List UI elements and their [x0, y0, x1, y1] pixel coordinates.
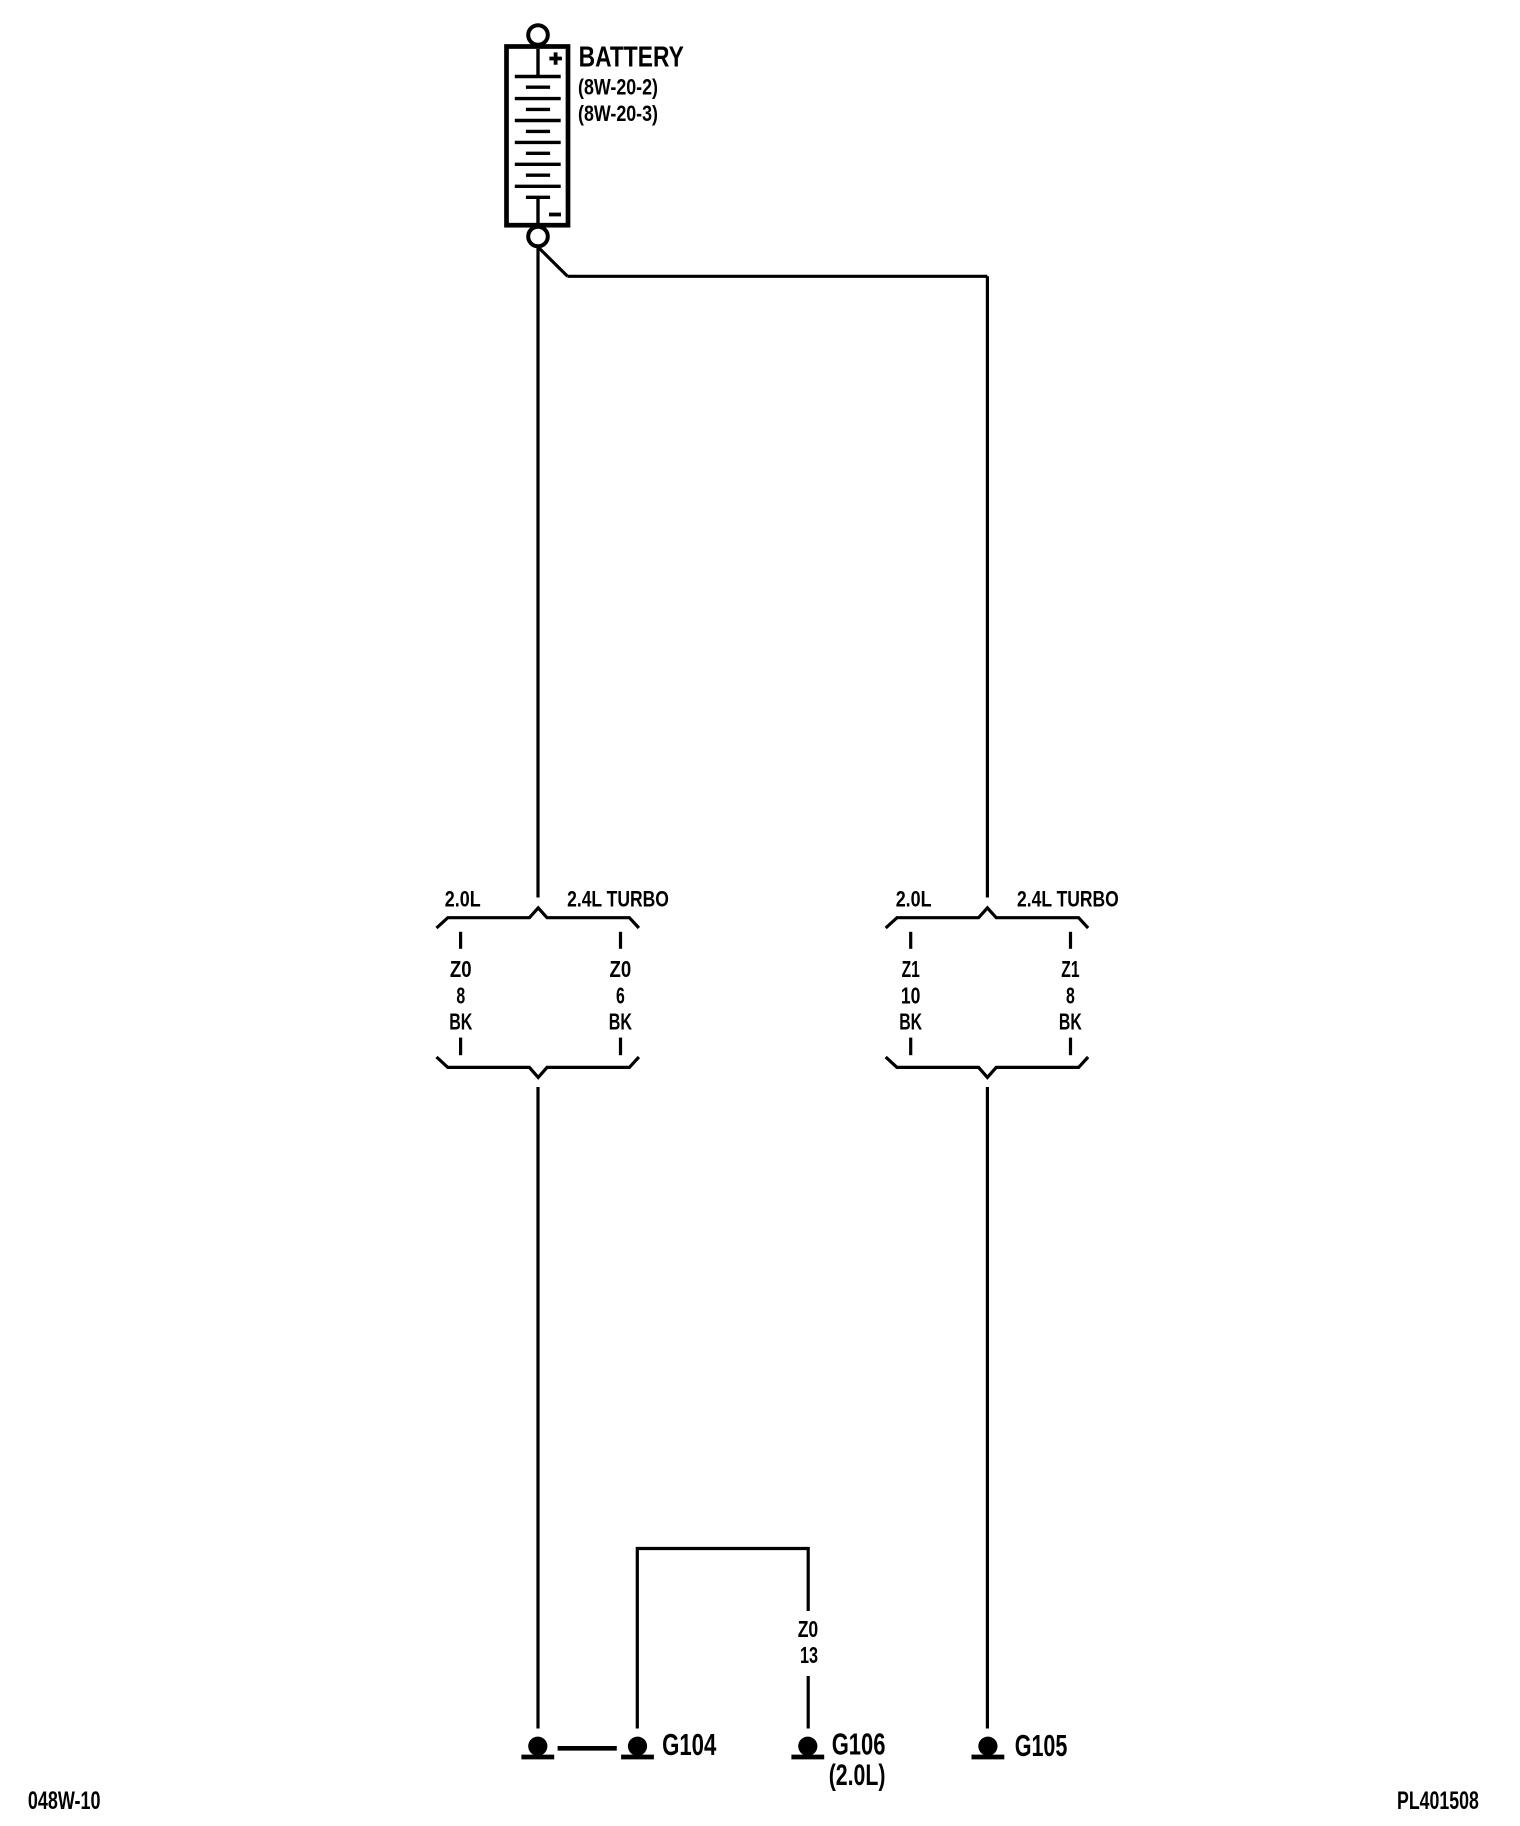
- wire: lower segment to G106: [807, 1676, 810, 1729]
- battery minus sign: [549, 213, 561, 217]
- wire: ground strap between grounds: [558, 1746, 617, 1751]
- ground G105: [972, 1737, 1005, 1757]
- battery B1 top terminal circle: [528, 25, 548, 45]
- battery B1 internal positive lead: [536, 49, 539, 75]
- svg-text:8: 8: [1066, 982, 1075, 1008]
- wire: top horizontal run to right column: [568, 275, 988, 278]
- left splice bottom brace: [437, 1057, 639, 1077]
- right splice top brace: [886, 908, 1088, 928]
- svg-text:2.4L TURBO: 2.4L TURBO: [1017, 887, 1119, 912]
- wire: left splice down to ground: [536, 1087, 539, 1729]
- svg-text:Z0: Z0: [798, 1616, 819, 1642]
- left splice lower dash (2.0L): [459, 1038, 462, 1056]
- wire: battery negative down to left splice: [536, 247, 539, 898]
- left splice lower dash (2.4L): [619, 1038, 622, 1056]
- svg-text:13: 13: [800, 1642, 818, 1668]
- wire: right splice down to G105: [986, 1087, 989, 1729]
- wire: right column vertical down to right splice: [986, 276, 989, 897]
- battery B1 body: [507, 47, 569, 226]
- svg-text:2.0L: 2.0L: [445, 887, 481, 912]
- svg-text:Z0: Z0: [610, 956, 632, 982]
- svg-text:BK: BK: [609, 1008, 632, 1034]
- svg-text:BK: BK: [899, 1008, 922, 1034]
- ground (unlabeled, battery negative): [521, 1737, 554, 1757]
- svg-text:(8W-20-2): (8W-20-2): [578, 75, 658, 100]
- svg-text:BATTERY: BATTERY: [579, 42, 684, 74]
- battery B1 cell plates: [515, 77, 561, 224]
- svg-text:G105: G105: [1015, 1728, 1068, 1763]
- left splice branch dash (2.0L): [459, 932, 462, 949]
- battery plus sign: [549, 52, 562, 64]
- svg-text:PL401508: PL401508: [1397, 1787, 1479, 1815]
- svg-text:(2.0L): (2.0L): [829, 1759, 886, 1792]
- svg-text:2.0L: 2.0L: [896, 887, 932, 912]
- battery B1 bottom terminal circle: [528, 227, 548, 247]
- wire label Z0 6 BK: [609, 956, 632, 1035]
- right splice lower dash (2.4L): [1069, 1038, 1072, 1056]
- wire label Z1 8 BK: [1059, 956, 1082, 1035]
- wire: diagonal from battery negative to right branch: [539, 248, 568, 277]
- right splice bottom brace: [886, 1057, 1088, 1077]
- svg-text:10: 10: [901, 982, 921, 1008]
- right splice branch dash (2.0L): [909, 932, 912, 949]
- svg-text:Z1: Z1: [902, 956, 920, 982]
- wire: G104 riser and jumper to G106 branch: [637, 1549, 808, 1729]
- svg-text:Z1: Z1: [1061, 956, 1079, 982]
- svg-text:BK: BK: [449, 1008, 472, 1034]
- svg-text:048W-10: 048W-10: [28, 1787, 101, 1815]
- ground G106: [791, 1737, 824, 1757]
- right splice lower dash (2.0L): [909, 1038, 912, 1056]
- svg-text:G104: G104: [662, 1727, 717, 1762]
- wire label Z1 10 BK: [899, 956, 922, 1035]
- wire label Z0 8 BK: [449, 956, 472, 1035]
- svg-text:8: 8: [456, 982, 465, 1008]
- svg-text:6: 6: [616, 982, 625, 1008]
- svg-text:(8W-20-3): (8W-20-3): [578, 101, 658, 126]
- left splice branch dash (2.4L): [619, 932, 622, 949]
- right splice branch dash (2.4L): [1069, 932, 1072, 949]
- svg-text:2.4L TURBO: 2.4L TURBO: [567, 887, 669, 912]
- ground G104: [621, 1737, 654, 1757]
- wire label Z0 13: [798, 1616, 819, 1668]
- left splice top brace: [437, 908, 639, 928]
- svg-text:BK: BK: [1059, 1008, 1082, 1034]
- svg-text:G106: G106: [832, 1726, 886, 1761]
- svg-text:Z0: Z0: [450, 956, 472, 982]
